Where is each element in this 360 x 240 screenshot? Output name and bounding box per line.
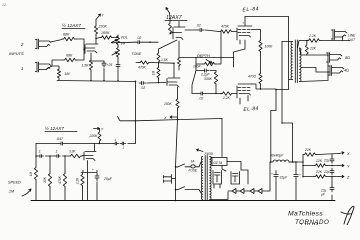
capacitor C15 22uF <box>331 168 333 171</box>
inductor OT secondary <box>300 48 302 82</box>
resistor R11 470 cathode <box>259 72 262 85</box>
jack J3 8ohm <box>326 53 342 63</box>
svg-text:100K: 100K <box>193 65 202 69</box>
wire c10 to c11 <box>45 155 55 157</box>
svg-text:.02: .02 <box>196 24 201 28</box>
capacitor C3 .02 <box>198 29 201 31</box>
wire C4 right to R13 <box>210 70 216 72</box>
wire R1 to grid node <box>76 39 84 50</box>
wire mid riser <box>221 119 223 157</box>
svg-text:OUT: OUT <box>348 38 356 42</box>
svg-text:+25: +25 <box>107 63 113 67</box>
svg-text:+: + <box>299 173 301 177</box>
svg-text:3.3K: 3.3K <box>69 150 76 154</box>
power arrow to R7 <box>166 8 170 14</box>
wire trem riser x135 <box>135 82 137 144</box>
wire V3 plate up <box>244 17 246 27</box>
wire OT sec 4ohm tap <box>301 68 330 73</box>
svg-text:470Ω: 470Ω <box>248 75 257 79</box>
tube V6b rectifier <box>231 172 240 185</box>
resistor R6 100K <box>96 38 100 39</box>
svg-text:LINE: LINE <box>348 34 356 38</box>
svg-text:25µF: 25µF <box>103 177 113 181</box>
power arrow X feed <box>170 116 178 118</box>
capacitor C9 25uF <box>96 173 98 176</box>
resistor R26 22K <box>314 175 327 179</box>
wire R22 to bus <box>49 188 51 201</box>
resistor R23 470K <box>63 172 66 188</box>
svg-text:22µ: 22µ <box>323 159 330 163</box>
diode D2 <box>240 189 244 194</box>
svg-text:X: X <box>163 116 167 120</box>
resistor R8 1.5K cathode <box>157 52 160 63</box>
wire C4 left down <box>196 64 202 71</box>
wire lower grid rail <box>192 93 198 95</box>
wire PT sec bottom <box>210 192 228 200</box>
potentiometer DEPTH 100K <box>203 62 216 66</box>
svg-text:+: + <box>92 168 94 172</box>
wire B+ riser to primary <box>282 42 293 163</box>
svg-text:.02: .02 <box>199 97 204 101</box>
wire R9 to EL84 grid <box>233 31 237 33</box>
resistor R22 10K <box>48 172 51 188</box>
op V3 pentode EL84 <box>237 26 252 40</box>
resistor R8c 470K <box>139 61 150 64</box>
wire R19 C9 to bus <box>82 187 84 201</box>
capacitor C12 32uF <box>275 171 277 175</box>
svg-text:8Ω: 8Ω <box>345 56 350 60</box>
wire C2 to V2 grid <box>143 41 150 43</box>
svg-text:40x40µF: 40x40µF <box>270 154 284 158</box>
potentiometer SPEED arrow <box>22 189 31 196</box>
resistor R1 68K <box>62 37 76 41</box>
wire V2 plate stub <box>178 22 180 28</box>
svg-text:2-10-94: 2-10-94 <box>298 223 318 225</box>
wire OT primary top lead <box>282 41 293 43</box>
svg-text:.02: .02 <box>141 86 146 90</box>
wire trem top rail left <box>36 143 58 145</box>
potentiometer TONE <box>116 47 119 58</box>
resistor R10 100K screen <box>259 39 262 53</box>
wire phase rail <box>36 155 38 157</box>
svg-text:220K: 220K <box>89 134 99 138</box>
resistor R14 1.2K <box>221 92 233 96</box>
wire R12 down <box>178 67 180 71</box>
svg-text:2.2K: 2.2K <box>308 34 317 38</box>
diode D3 <box>250 189 254 194</box>
wire R10 down <box>260 53 262 72</box>
capacitor C5 .02 <box>198 93 201 95</box>
svg-text:68K: 68K <box>63 33 70 37</box>
svg-text:GZ 34: GZ 34 <box>213 161 222 165</box>
resistor R18 220K <box>98 131 101 142</box>
svg-text:22K: 22K <box>309 47 317 51</box>
svg-text:330K: 330K <box>204 77 213 81</box>
wire trem top rail mid <box>66 143 113 145</box>
capacitor C11 .1 <box>55 155 57 157</box>
wire V3 cathode path <box>234 40 246 67</box>
svg-text:32µF: 32µF <box>280 176 289 180</box>
svg-text:100K: 100K <box>101 31 110 35</box>
wire depth left <box>196 58 203 65</box>
wiper arrow TONE <box>112 52 117 55</box>
wire R14 to V4 grid <box>233 93 237 95</box>
svg-text:100K: 100K <box>164 102 173 106</box>
jack J2 <box>35 62 51 72</box>
resistor R20 3.3K <box>69 154 82 158</box>
diode D4 <box>258 189 262 194</box>
resistor R7 plate <box>169 22 172 34</box>
svg-text:.02: .02 <box>137 36 142 40</box>
wire R8b down <box>158 79 160 83</box>
svg-text:.047: .047 <box>56 137 64 141</box>
wire lineout rail <box>298 41 351 49</box>
svg-text:1.2K: 1.2K <box>223 96 231 100</box>
svg-text:+: + <box>271 172 273 176</box>
wire mid rail <box>118 117 223 121</box>
wire depth right <box>216 58 221 65</box>
wire C16 to bus <box>331 177 333 186</box>
wire mains top <box>176 166 178 168</box>
wire plate bus <box>260 85 262 89</box>
wire C13 node <box>295 162 297 171</box>
wire OT core <box>294 40 296 83</box>
wire R8 to R8b <box>158 63 160 66</box>
wire B+ riser <box>302 155 304 162</box>
wire mains left <box>175 167 177 201</box>
resistor R8b 1M <box>157 66 160 79</box>
signature mark <box>341 206 354 225</box>
wire mains bottom <box>176 189 178 191</box>
wire R6 to VOL <box>113 35 118 38</box>
wire V5 grid <box>82 155 84 157</box>
inductor L1 choke <box>273 160 289 162</box>
capacitor C18 tone <box>117 58 119 62</box>
capacitor C7 .047 <box>113 143 115 145</box>
capacitor C6 .047 <box>58 143 61 145</box>
wire rail riser from V2 <box>178 41 180 58</box>
wire leads to PT <box>199 162 201 167</box>
resistor R9 470K <box>219 30 233 34</box>
capacitor C14 22uF <box>331 157 333 160</box>
power arrow Y <box>94 127 100 129</box>
wire C3 to R9 <box>205 30 219 32</box>
wire R5 to bus <box>90 71 92 81</box>
resistor R2 68K <box>63 58 77 62</box>
inductor PT primary <box>201 157 202 200</box>
wire V4 leads down <box>240 96 248 105</box>
svg-text:100K: 100K <box>265 45 274 49</box>
svg-text:220K: 220K <box>98 25 108 29</box>
resistor R13 330K <box>214 71 217 86</box>
wire R3 to ground bus <box>58 79 60 81</box>
svg-text:MaTchless: MaTchless <box>288 211 323 218</box>
wire rect out <box>241 162 270 191</box>
wire grid V1 <box>84 48 85 50</box>
resistor R17 22K <box>305 44 308 55</box>
wire TONE to bus <box>117 70 119 81</box>
wire R21 to bus <box>35 181 37 201</box>
capacitor C1 25uF bypass <box>91 60 104 62</box>
capacitor C2 .02 <box>135 41 138 43</box>
wire plate staircase <box>271 17 289 163</box>
capacitor C8 .047 <box>120 143 122 145</box>
svg-text:1M: 1M <box>29 171 33 176</box>
svg-text:1.5K: 1.5K <box>82 64 90 68</box>
svg-text:X: X <box>346 152 350 156</box>
svg-text:DEPTH: DEPTH <box>197 54 210 58</box>
wire wiper to C2 <box>112 41 136 44</box>
svg-text:½ 12AX7: ½ 12AX7 <box>45 125 64 131</box>
wiper arrow VOL <box>112 39 118 42</box>
wire OT sec common <box>300 61 329 82</box>
wire R13 to lower grid rail <box>215 86 217 94</box>
wire C12 to bus <box>275 181 277 200</box>
wire trem left edge <box>35 144 37 167</box>
wire V5 plate up <box>94 144 96 152</box>
power arrow Y2 <box>327 165 339 167</box>
svg-text:22K: 22K <box>315 170 323 174</box>
svg-text:1.5K: 1.5K <box>161 58 169 62</box>
wire OT sec 8ohm tap <box>300 48 329 55</box>
inductor PT secondary <box>210 157 212 200</box>
switch S1a <box>177 164 185 167</box>
op V2b triode <box>167 78 180 87</box>
op V1 triode <box>85 44 98 54</box>
svg-text:SPEED: SPEED <box>8 181 21 185</box>
switch S1b <box>177 187 185 190</box>
resistor R19 2.2K <box>81 173 84 187</box>
wire plate to OT top <box>245 16 289 18</box>
resistor R12 56K <box>178 58 181 67</box>
wire V2 cathode diag <box>159 40 178 52</box>
wire gz34 link <box>222 162 241 172</box>
capacitor C4 2.2uF <box>202 70 205 72</box>
wire ground bus <box>31 200 335 202</box>
wire R2 to grid node <box>77 50 84 61</box>
wire V2b cathode down <box>177 87 179 98</box>
wire plate node right <box>185 29 198 31</box>
svg-text:22µ: 22µ <box>323 170 330 174</box>
svg-text:10K: 10K <box>43 176 47 183</box>
wire PI top rail <box>179 57 234 59</box>
svg-text:INPUTS: INPUTS <box>9 51 24 56</box>
op V5 triode <box>84 152 96 161</box>
power arrow Z to R4 <box>96 14 101 20</box>
resistor R21 1M <box>34 166 37 181</box>
capacitor C16 22uF <box>331 185 333 188</box>
wire R20 to grid <box>81 155 83 157</box>
wire PT sec top <box>210 157 212 158</box>
wire PT core <box>204 156 206 201</box>
power arrow X <box>317 154 339 155</box>
wire c11 to R20 <box>62 155 69 157</box>
svg-text:22K: 22K <box>304 148 312 152</box>
wire R4 to plate <box>95 35 97 44</box>
svg-text:22K: 22K <box>315 159 323 163</box>
wire jack1 to R1 <box>51 40 63 43</box>
resistor R25 22K <box>314 164 327 168</box>
capacitor C10 .1 <box>38 155 40 157</box>
jack J1 <box>35 39 51 49</box>
resistor R5 1.5K cathode <box>89 59 92 71</box>
diode D1 <box>232 189 236 194</box>
label PT 7400 <box>197 149 204 152</box>
wire jack2 sleeve to R3 <box>52 66 59 68</box>
svg-text:1M: 1M <box>152 70 156 75</box>
svg-text:4Ω: 4Ω <box>344 69 349 73</box>
svg-text:VOL: VOL <box>121 36 128 40</box>
svg-text:1M: 1M <box>65 72 70 76</box>
tube V6 rectifier <box>213 171 222 189</box>
op V2 triode <box>173 27 185 40</box>
wire V2 grid <box>150 41 158 43</box>
svg-text:12.: 12. <box>2 3 7 7</box>
wire V3 screen right <box>251 30 261 40</box>
power arrow Z2 <box>327 176 339 178</box>
inductor OT primary <box>291 42 293 80</box>
svg-text:2.2K: 2.2K <box>76 177 80 185</box>
wire jack2 to R2 <box>47 66 53 69</box>
svg-text:.1M: .1M <box>8 190 14 194</box>
wire R23 to bus <box>64 188 66 201</box>
wire trem rail to riser <box>128 143 136 145</box>
wire OT primary bottom lead <box>289 79 293 81</box>
jack J4 4ohm <box>328 66 344 76</box>
svg-text:1: 1 <box>21 66 23 71</box>
capacitor C13 32uF <box>295 171 297 175</box>
wire V2b grid feed <box>150 62 174 65</box>
svg-text:.1: .1 <box>38 150 41 154</box>
svg-text:TONE: TONE <box>132 52 142 56</box>
box GZ34 <box>212 158 227 166</box>
wire preamp ground bus <box>57 81 136 82</box>
wire mains riser <box>176 119 178 167</box>
resistor R16 2.2K lineout <box>307 39 321 43</box>
wire VOL bottom to tone <box>117 46 119 47</box>
wire V4 plate right <box>251 84 276 89</box>
svg-text:Y: Y <box>101 128 104 132</box>
svg-text:470K: 470K <box>58 175 62 183</box>
resistor R3 1M <box>57 68 60 79</box>
plug AC <box>164 175 176 184</box>
junction dots <box>83 49 85 51</box>
wire cathode V1 down <box>90 53 92 59</box>
wire C17 to V2b grid <box>147 82 166 85</box>
wire V5 cathode down <box>87 161 89 201</box>
resistor R15 100K <box>176 98 179 109</box>
svg-text:FUSE: FUSE <box>189 169 198 173</box>
wire rail riser x192 <box>192 71 196 94</box>
svg-text:68K: 68K <box>66 54 73 58</box>
svg-text:470K: 470K <box>138 66 147 70</box>
fuse F1 <box>191 165 195 168</box>
wire R7 to V2 plate <box>170 32 173 34</box>
capacitor C17 .02 <box>139 82 142 84</box>
svg-text:2.2µF: 2.2µF <box>200 73 210 77</box>
op V4 pentode EL84 <box>237 84 252 98</box>
jack J5 lineout <box>331 30 347 40</box>
wire riser x221 <box>220 32 222 58</box>
potentiometer VOL 1M <box>116 35 119 46</box>
wire C1 to bus <box>103 69 105 81</box>
wire choke node <box>270 161 273 163</box>
svg-text:470K: 470K <box>221 25 230 29</box>
resistor R4 220K plate <box>94 25 97 35</box>
svg-text:1A: 1A <box>191 160 195 164</box>
svg-text:.1: .1 <box>55 150 58 154</box>
wiper arrow DEPTH <box>206 60 212 64</box>
resistor R24 22K <box>303 153 317 157</box>
svg-text:½ 12AX7: ½ 12AX7 <box>62 22 81 28</box>
